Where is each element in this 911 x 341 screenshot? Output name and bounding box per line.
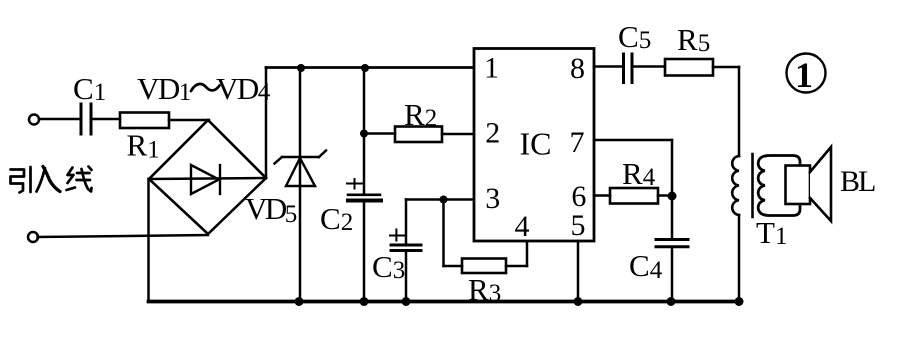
svg-text:7: 7 [570,126,585,159]
svg-text:1: 1 [795,55,813,95]
svg-text:1: 1 [484,52,499,85]
svg-text:2: 2 [485,117,500,150]
svg-text:5: 5 [571,209,586,242]
svg-text:8: 8 [570,52,585,85]
svg-text:4: 4 [515,210,530,243]
svg-text:BL: BL [840,165,875,198]
svg-text:IC: IC [520,126,552,162]
svg-text:3: 3 [485,182,500,215]
